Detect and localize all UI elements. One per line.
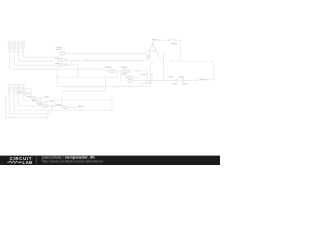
svg-text:LAB: LAB	[23, 160, 33, 165]
svg-text:https://www.circuitlab.com/cir: https://www.circuitlab.com/circuit/u22ie…	[42, 159, 104, 163]
